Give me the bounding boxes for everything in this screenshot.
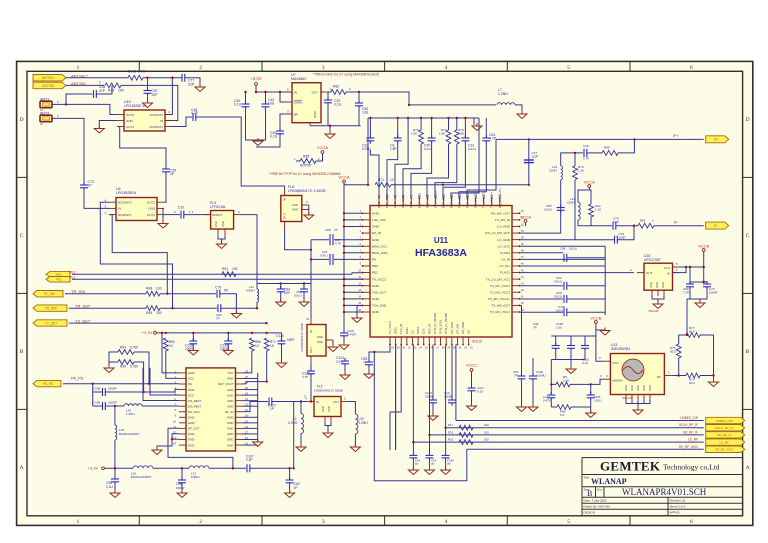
U11 pin dot top [410,197,412,199]
wire R82 out [346,91,359,93]
wire C118 gnd [532,382,534,407]
svg-text:0.01U: 0.01U [424,147,432,151]
svg-text:5: 5 [567,519,570,525]
wire C86 right [567,257,605,259]
wire C17 riser [528,139,530,184]
svg-text:B: B [746,349,750,355]
U11 pin dot left [362,245,364,247]
wire trio gnd stem [570,360,572,370]
port SCLK_RF_IF [706,425,745,431]
wire 3.3V mid rail [157,332,269,334]
ground FL4 right [328,344,338,352]
junction PA_PE a [92,383,94,385]
U11 pin dot bottom [428,344,430,346]
wire C121 bot [550,401,552,407]
wire C61 topb [485,118,487,138]
U11 pin dot bottom [445,344,447,346]
U11 pin dot bottom [451,344,453,346]
zone tick right [743,176,753,178]
U11 stub bottom [395,337,397,345]
svg-text:IN: IN [283,198,287,201]
zone tick left [17,292,27,294]
svg-text:1: 1 [77,519,80,525]
junction top rail [464,117,466,119]
U13 stub gnd3 [643,395,645,401]
svg-text:RF_OUT: RF_OUT [188,427,200,431]
ground C115b [586,410,596,418]
ground L7 [517,111,527,119]
wire R75 right [700,375,714,377]
wire bottom rail a [105,467,134,469]
wire ladder left v [550,360,552,395]
U11 pin dot bottom [412,344,414,346]
svg-text:GND: GND [221,221,225,227]
wire trio drop 555.7 [555,336,557,345]
capacitor C96b [111,476,119,485]
wire U4 OUT1 to C10 [164,214,180,216]
capacitor C45 [193,113,196,121]
wire U12 pin6 [143,368,179,401]
junction top rail [420,117,422,119]
wire bottom rail d [250,467,290,469]
wire R44 top [589,190,591,204]
wire row TX_MX_VCC2 [520,298,564,300]
inductor L20 [124,404,142,406]
junction u7 gnd row [329,125,331,127]
svg-text:NO16NT1: NO16NT1 [149,125,163,129]
junction vccb [703,266,705,268]
svg-text:GND: GND [227,393,233,397]
svg-text:RX_MX_OUT: RX_MX_OUT [491,212,510,216]
capacitor C120 [224,338,232,347]
wire att top drop [686,299,688,335]
capacitor C62 [286,477,294,486]
U12 pin stub right [236,439,243,441]
wire line2 b [105,389,179,392]
wire U10 GND to gnd [99,121,117,129]
wire PE2 long [72,273,352,275]
U10 pin stub left [117,120,124,122]
svg-text:TX_MX_VCC2: TX_MX_VCC2 [490,290,511,294]
svg-text:7P: 7P [533,326,537,330]
svg-text:FLAG1: FLAG1 [500,271,510,275]
svg-text:VCC: VCC [188,377,194,381]
U11 stub right [512,258,520,260]
svg-text:TX_MX_VCC1: TX_MX_VCC1 [490,310,511,314]
svg-text:R71: R71 [378,178,384,182]
svg-text:GND: GND [188,371,194,375]
U7 stub OUT [321,91,328,93]
wire C75 right [616,225,638,227]
wire C115b bot [590,401,592,413]
U16 stub gnd0 [651,290,653,296]
capacitor C126 [307,368,315,377]
U13 stub modin [603,378,610,380]
zone tick top [506,61,508,71]
wire C43 down [256,137,280,147]
svg-text:16P: 16P [284,291,291,295]
svg-text:110P: 110P [532,155,539,159]
svg-text:3: 3 [322,65,325,71]
wire c69 gnd [690,290,700,302]
U11 stub bottom [462,337,464,345]
wire L18 down to rail [114,440,116,468]
inductor L7 [497,103,515,105]
svg-text:0.01U: 0.01U [556,309,564,313]
capacitor C75 [613,222,616,230]
svg-text:0.01U: 0.01U [554,295,562,299]
svg-text:A: A [746,465,750,471]
U16 stub vcc2 [673,266,680,268]
svg-text:GND: GND [292,208,298,212]
capacitor C33 [330,254,333,265]
zone tick left [17,408,27,410]
wire U12 rpin 5 [243,400,258,402]
U13 VCO sine [623,367,643,374]
U11 stub bottom [428,337,430,345]
svg-text:*MACAM*: *MACAM* [648,310,659,313]
svg-text:IN: IN [667,272,670,276]
wire rail2 left drop [367,118,369,185]
ground C96b [110,490,120,498]
U4 pin stub right [157,214,164,216]
wire U12 rpin 11 [243,433,258,435]
svg-text:NO20NT2: NO20NT2 [118,201,132,205]
U11 stub right [512,304,520,306]
svg-text:VCC: VCC [188,393,194,397]
wire U13 gnd join [626,401,650,404]
junction line4 cap [412,441,414,443]
svg-text:GND: GND [655,282,659,288]
wire U4 NO20NT1 run [109,215,167,294]
U11 pin dot bottom [434,344,436,346]
svg-text:IN: IN [294,90,297,94]
U12 pin stub left [179,433,186,435]
capacitor C100 [564,308,567,316]
svg-text:B: B [20,349,24,355]
svg-text:GND: GND [227,404,233,408]
U11 pin dot bottom [417,344,419,346]
svg-text:GND: GND [317,340,323,344]
svg-text:10: 10 [390,178,394,182]
svg-text:0.1U: 0.1U [477,390,483,394]
U16 stub gnd2 [663,290,665,296]
junction r54 pe [148,383,150,385]
svg-text:100: 100 [156,311,162,315]
svg-text:CP_GND: CP_GND [461,322,465,334]
svg-text:TXA_SUB: TXA_SUB [372,304,386,308]
ground C54 [276,299,286,307]
port LE_RF [706,439,745,445]
svg-text:GND: GND [372,212,380,216]
svg-text:RX_LO_DR_VCC: RX_LO_DR_VCC [485,231,510,235]
svg-text:0.01U: 0.01U [569,247,577,251]
wire C77 to gnd elbow [185,78,200,86]
junction trsw1 drop [166,293,168,295]
port LMBEZ_CW [706,417,745,423]
svg-text:MODIN: MODIN [612,379,622,383]
U12 pin stub right [236,372,243,374]
svg-text:U11: U11 [434,236,449,245]
resistor R13 [105,83,121,88]
U12 pin stub left [179,383,186,385]
svg-text:A: A [20,465,24,471]
svg-text:RX_RF_AGC: RX_RF_AGC [679,445,699,449]
resistor R17 [459,425,473,430]
svg-text:GND: GND [372,225,380,229]
svg-text:OUT: OUT [312,90,319,94]
svg-text:C: C [20,233,24,239]
wire U7 OUT to R82 [328,91,331,93]
svg-text:R17: R17 [448,423,454,427]
svg-text:100: 100 [484,438,489,442]
junction vcca tie 1 [343,219,345,221]
junction att in [678,374,680,376]
svg-text:APPVD: APPVD [670,511,681,515]
filter FL3 [211,211,234,230]
wire U7 BP [280,114,285,129]
U12 pin stub left [179,405,186,407]
wire C40 riser [245,92,247,104]
wire TR_SW seg3 [220,294,236,313]
U13 stub gnd0 [625,395,627,401]
filter FL5 [314,397,341,417]
wire RX_MX_OUT [520,180,561,233]
wire C120 top [227,333,229,341]
wire vccb riser u13 [596,336,604,361]
svg-text:R31: R31 [448,430,454,434]
svg-text:0.1U: 0.1U [334,103,342,107]
port TR_SW* [33,305,67,311]
svg-text:LPG4525EA: LPG4525EA [116,191,137,195]
FL3 stub left [204,214,211,216]
ground U4 [158,221,168,229]
svg-text:7P: 7P [514,374,518,378]
wire top pin direct2 [467,139,496,198]
svg-text:GEMTEK: GEMTEK [600,459,661,474]
junction 3.3V rail [165,332,167,334]
svg-text:PA_PE: PA_PE [71,375,84,380]
svg-text:GND: GND [394,328,398,334]
wire FL5 gnd join [325,423,331,426]
wire FL4 bottom [310,363,312,369]
svg-text:0.01U: 0.01U [362,147,371,151]
ground C59 [364,371,374,379]
port IF+ [706,136,729,143]
svg-text:CP_VDD: CP_VDD [450,322,454,334]
wire U13 rf out [671,375,686,377]
inductor L13 [578,202,580,220]
capacitor C115b [587,392,595,401]
wire TR_SW seg1 [65,293,146,295]
wire L13 bottom [578,220,591,226]
svg-text:GND: GND [630,385,634,391]
wire U10 OUT1 path [117,127,166,168]
wire rail2 gnd drop [473,118,475,125]
svg-text:1000P: 1000P [108,401,117,405]
junction vcca tie 10 [343,278,345,280]
U11 pin dot left [362,265,364,267]
wire bot v 374 loop [374,352,467,481]
wire C76 row ext [575,239,615,241]
wire U12 rpin 1 [243,377,258,379]
wire PA_PE branch v [92,384,94,406]
U11 stub left [363,265,371,267]
resistor R44 [589,204,594,217]
svg-text:2: 2 [199,519,202,525]
resistor R82 [331,90,346,95]
U11 pin dot left [362,232,364,234]
junction top rail [397,117,399,119]
junction top rail [369,117,371,119]
capacitor C6 [394,135,402,144]
junction ladder left [550,383,552,385]
U11 stub left [363,232,371,234]
svg-text:SCLK_RF_IF: SCLK_RF_IF [715,426,733,430]
junction vcca tie 11 [343,284,345,286]
U11 stub right [512,278,520,280]
wire C149 gnd [445,458,447,470]
wire C114 down [344,367,346,374]
U11 stub top [450,198,452,206]
power +3.3V [250,76,261,85]
U11 pin dot right [519,291,521,293]
svg-text:100: 100 [484,430,489,434]
svg-text:1.5K: 1.5K [439,132,445,136]
U12 pin stub left [179,439,186,441]
svg-text:OUT: OUT [333,400,339,404]
wire C10 to FL3 [184,214,211,216]
svg-text:82.5: 82.5 [670,350,676,354]
U11 pin dot right [519,252,521,254]
wire C59 gnd [368,368,370,373]
svg-text:LO_GND: LO_GND [497,238,510,242]
junction c40 top [244,91,246,93]
U11 pin dot left [362,252,364,254]
svg-text:0.47U: 0.47U [543,399,551,403]
connector ANT2 [40,115,52,122]
U13 stub gnd2 [637,395,639,401]
ground FL6 [304,212,314,220]
svg-text:LTF5216L: LTF5216L [210,205,226,209]
resistor R50 [163,338,168,351]
ground U12 collector [253,439,263,447]
junction 3.3V rail [251,332,253,334]
U11 stub bottom [400,337,402,345]
U11 pin dot left [362,239,364,241]
wire FL4 gnd right [332,340,334,346]
U11 pin dot left [362,285,364,287]
svg-text:1: 1 [57,100,59,104]
wire vcca tie 14 [344,304,363,306]
port TX_DET [33,320,67,326]
wire IF+ to port [496,138,704,140]
wire C115 top [192,333,194,341]
svg-text:4.7P: 4.7P [191,111,199,115]
wire ANT1 to C28 [52,94,93,104]
wire top stair 4 [411,144,432,198]
svg-text:HFA3683A: HFA3683A [415,247,467,259]
wire R69 right [571,406,591,408]
FL5 stub left [307,401,314,403]
wire match to FL4 [310,284,312,318]
wire vcca tie 0 [344,212,363,214]
U11 stub left [363,272,371,274]
op-amp U10 [124,110,165,131]
power VCCA mid [338,175,349,183]
svg-text:LFB3N50N17C 2.45GB: LFB3N50N17C 2.45GB [288,189,326,193]
svg-text:Doc: Doc [597,488,603,492]
svg-text:C106: C106 [93,387,101,391]
U11 stub right [512,245,520,247]
svg-text:PE2: PE2 [69,270,76,274]
ground top rail [472,123,482,131]
svg-text:Drawn By: AMY WU: Drawn By: AMY WU [584,505,611,509]
U11 pin dot left [362,291,364,293]
U11 pin dot top [467,197,469,199]
junction antsel star b [171,77,173,79]
wire TX_DET to DET_VOUT [246,376,267,382]
inductor L12 [561,166,563,180]
capacitor C43 [276,128,284,137]
wire C59 top [368,355,370,362]
wire C42 link [265,92,267,104]
ground C130 [277,360,287,368]
U11 stub right [512,219,520,221]
svg-text:7P: 7P [415,462,419,466]
wire net SD_RF_IF [430,434,704,436]
wire c51 feed [520,306,522,376]
wire R80 to IF+ [618,139,634,153]
junction att out [712,374,714,376]
junction L2 top [300,400,302,402]
svg-text:22P: 22P [152,93,159,97]
svg-text:SCLK_RF_IF: SCLK_RF_IF [679,423,698,427]
svg-text:0.01U: 0.01U [294,294,302,298]
capacitor C86 [564,254,567,262]
junction top rail [407,117,409,119]
svg-text:REF_IN: REF_IN [427,324,431,334]
U12 pin stub right [236,405,243,407]
capacitor C114 [341,358,349,367]
U11 pin dot bottom [406,344,408,346]
U11 pin dot top [443,197,445,199]
wire C31 top [464,118,466,138]
wire U16 gnd join [652,296,664,299]
svg-text:SHDN: SHDN [294,100,303,104]
U11 stub right [512,212,520,214]
svg-text:IN: IN [316,400,319,404]
wire +3.3V to U7 [256,86,292,93]
U12 pin stub right [236,389,243,391]
svg-text:UPC2745T: UPC2745T [644,258,661,262]
junction L18 top [114,405,116,407]
U11 stub right [512,311,520,313]
wire att gnd [713,376,715,382]
junction vcca tie 12 [343,291,345,293]
svg-text:0.068U: 0.068U [536,374,546,378]
svg-text:4.7P: 4.7P [613,220,619,224]
capacitor C70 [703,281,711,290]
svg-text:Title: Title [584,476,590,480]
svg-text:GND: GND [648,385,652,391]
ground C117 [467,403,477,411]
wire vcca tie 1 [344,219,363,221]
wire top rail2 [368,117,479,119]
U11 pin dot right [519,272,521,274]
wire U4 NO20NT2 run [100,202,172,308]
wire U12 rpin 6 [243,405,258,407]
